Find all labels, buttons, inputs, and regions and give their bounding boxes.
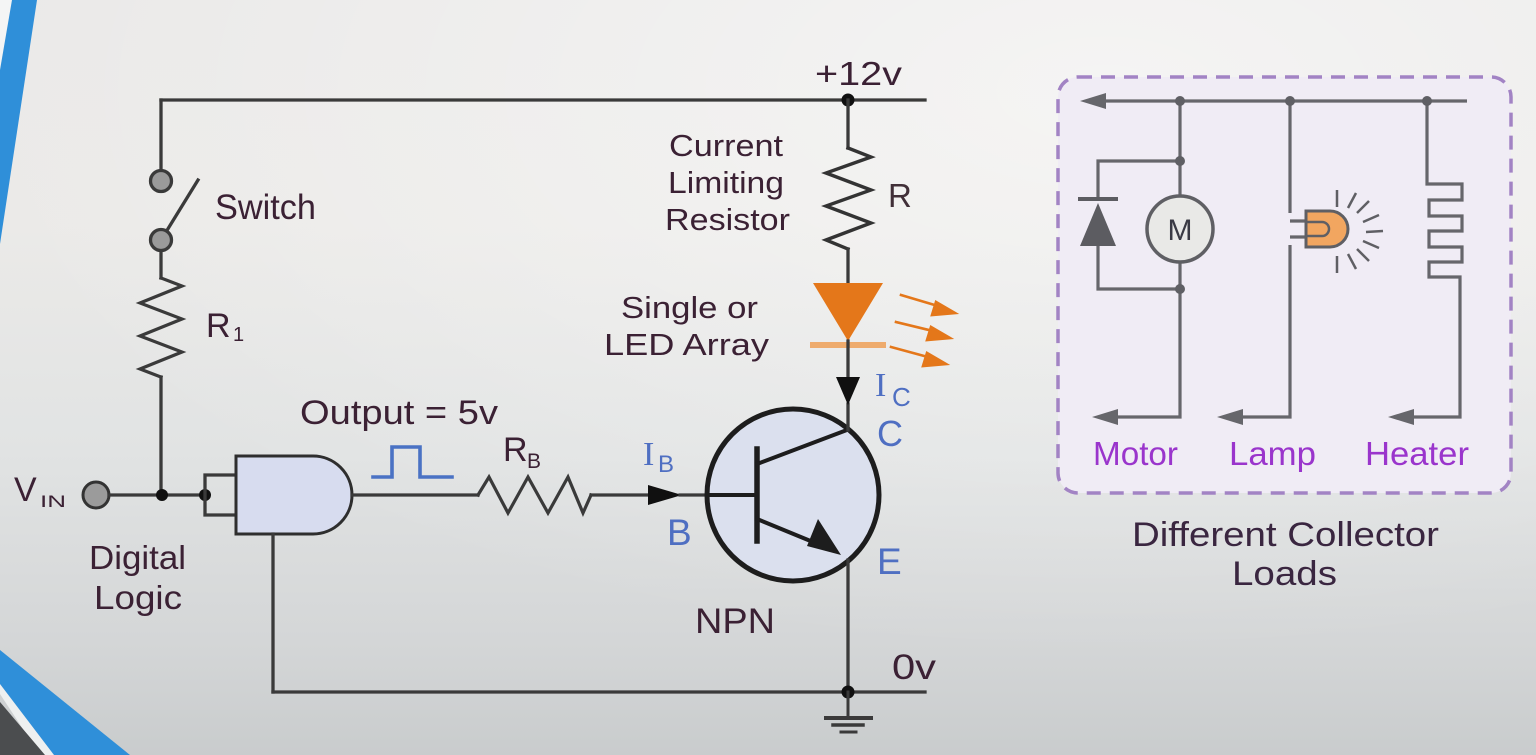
lamp [1306, 190, 1383, 273]
svg-text:C: C [892, 382, 911, 412]
arrows bottom [1092, 409, 1118, 425]
svg-text:Switch: Switch [215, 188, 316, 227]
wire LED to arrow [846, 341, 849, 377]
svg-text:Output = 5v: Output = 5v [300, 394, 498, 432]
waveform pulse symbol [373, 447, 452, 477]
wire rail to resistor R [846, 100, 849, 148]
wire 0v rail [273, 690, 925, 693]
node junction at gate input [199, 489, 211, 501]
svg-text:Digital: Digital [89, 539, 186, 576]
arrow bus left [1080, 93, 1106, 109]
svg-text:R: R [503, 431, 528, 469]
svg-text:Single or: Single or [621, 290, 758, 325]
diode D2 [1078, 197, 1118, 201]
svg-text:Limiting: Limiting [668, 165, 784, 200]
wire top +12v rail [161, 98, 925, 101]
svg-text:Motor: Motor [1093, 435, 1178, 472]
svg-text:LED Array: LED Array [604, 327, 770, 362]
transistor Q1 NPN [707, 409, 879, 581]
wire VIN to gate [109, 493, 207, 496]
wire collector [846, 404, 849, 430]
svg-text:1: 1 [233, 324, 244, 346]
ground [826, 692, 871, 732]
wire R to LED [846, 249, 849, 283]
svg-text:Lamp: Lamp [1229, 435, 1316, 472]
resistor RB [478, 477, 591, 513]
wire switch to R1 [159, 251, 162, 278]
wire arrow to base [680, 493, 707, 496]
svg-text:Resistor: Resistor [665, 202, 790, 237]
svg-text:I: I [875, 367, 886, 404]
node junction at R1 [156, 489, 168, 501]
svg-text:E: E [877, 541, 902, 582]
wire left vertical from rail to switch [159, 100, 162, 170]
svg-text:V: V [14, 471, 37, 509]
LED light arrows [891, 295, 955, 366]
wire input bracket to both gate inputs [205, 475, 236, 515]
wire panel top bus [1100, 99, 1467, 102]
svg-text:I: I [643, 436, 654, 473]
wire heater branch [1412, 101, 1462, 417]
wire emitter to 0v rail [846, 560, 849, 692]
resistor R [826, 148, 871, 249]
svg-text:Logic: Logic [94, 579, 182, 616]
decorative corner stripes [0, 0, 130, 755]
gate U1 (AND) [236, 456, 352, 534]
node bus dots [1175, 96, 1185, 106]
svg-text:Different Collector: Different Collector [1132, 516, 1439, 554]
wire motor branch top [1178, 101, 1181, 195]
LED D1 [813, 283, 883, 341]
arrow IB current [648, 485, 682, 505]
node 0v junction [842, 686, 855, 699]
svg-text:C: C [877, 413, 903, 454]
svg-text:0v: 0v [892, 648, 937, 687]
svg-text:B: B [527, 450, 541, 473]
svg-text:R: R [206, 307, 231, 345]
wire diode branch [1098, 161, 1180, 289]
terminal VIN [83, 482, 109, 508]
wire gate output [352, 493, 478, 496]
svg-text:IN: IN [40, 492, 66, 511]
wire motor branch bottom [1116, 263, 1180, 417]
motor M [1147, 196, 1213, 262]
collector loads panel [1058, 77, 1511, 593]
svg-text:B: B [667, 512, 692, 553]
resistor R1 [140, 278, 182, 377]
wire gate bottom to 0v rail [271, 534, 274, 692]
svg-text:R: R [888, 177, 912, 214]
svg-text:B: B [658, 451, 674, 478]
svg-text:Heater: Heater [1365, 435, 1469, 472]
svg-text:Current: Current [669, 128, 783, 163]
arrow IC current [836, 377, 860, 405]
svg-text:Loads: Loads [1232, 555, 1337, 593]
switch S1 [151, 171, 199, 251]
wire lamp branch [1241, 101, 1306, 417]
svg-text:+12v: +12v [815, 55, 903, 92]
wire RB to base [591, 493, 650, 496]
svg-text:NPN: NPN [695, 602, 775, 641]
wire R1 down to input node [159, 377, 162, 495]
svg-text:M: M [1168, 214, 1193, 247]
node +12v junction [842, 94, 855, 107]
